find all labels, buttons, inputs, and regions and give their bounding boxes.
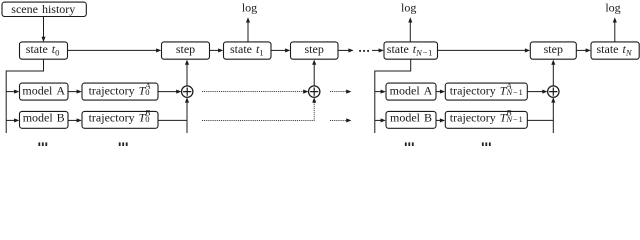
box state t1 xyxy=(224,42,272,59)
dotted wire row B to circle2 bottom xyxy=(202,101,314,120)
box model A right xyxy=(386,83,436,100)
ah into model B right xyxy=(381,118,386,122)
bottom continuation dots xyxy=(38,142,490,146)
ah dashed B xyxy=(346,118,351,122)
svg-text:state tN − 1: state tN − 1 xyxy=(387,42,433,58)
ah into step2 xyxy=(285,48,290,52)
wire trajectory B to circle1 bottom xyxy=(158,98,187,133)
ah into trajectory B left xyxy=(77,118,82,122)
box trajectory T0A xyxy=(82,83,158,100)
ah into model A left xyxy=(14,90,19,94)
wire model A to trajectory A left xyxy=(68,91,77,93)
wire model B to trajectory B left xyxy=(68,119,77,121)
svg-text:model B: model B xyxy=(390,111,432,125)
ah into step3 xyxy=(525,48,530,52)
box trajectory TN-1 B xyxy=(445,111,527,128)
wire trajectory B right to circle3 bottom xyxy=(528,98,554,133)
svg-text:log: log xyxy=(401,1,416,15)
text mid dots xyxy=(359,50,369,52)
wire branch to model B left xyxy=(6,119,14,121)
arrowheads xyxy=(14,17,617,122)
svg-text:model B: model B xyxy=(23,111,65,125)
wire model B to trajectory B right xyxy=(436,119,440,121)
dots under trajectories right xyxy=(482,142,484,146)
circle plus 2 xyxy=(309,86,320,97)
svg-text:state t0: state t0 xyxy=(26,42,60,58)
wire step2 to dots xyxy=(338,49,349,51)
wire trajectory A to circle1 xyxy=(158,91,177,93)
ah into model B left xyxy=(14,118,19,122)
ah circle3 into step3 bottom xyxy=(551,60,555,65)
svg-text:step: step xyxy=(305,42,324,56)
ah log2 up xyxy=(408,17,412,22)
wires solid xyxy=(6,17,615,133)
ah log3 up xyxy=(613,17,617,22)
ah into circle1 left xyxy=(176,90,181,94)
ah into state t0 top xyxy=(41,37,45,42)
ah into circle2 left xyxy=(303,90,308,94)
box scene history xyxy=(2,2,86,16)
svg-text:trajectory T0A: trajectory T0A xyxy=(89,81,152,98)
plus signs xyxy=(183,88,557,96)
wire trajectory A right to circle3 xyxy=(528,91,544,93)
dots under models left xyxy=(38,142,40,146)
wires dotted xyxy=(202,92,347,121)
box state tN-1 xyxy=(384,42,438,59)
wire step1 to state t1 xyxy=(210,49,219,51)
box model B right xyxy=(386,111,436,128)
ah into mid dots xyxy=(348,48,353,52)
svg-text:model A: model A xyxy=(390,83,433,97)
ah into circle2 bottom xyxy=(312,97,316,102)
wire dots to state tN-1 xyxy=(372,49,380,51)
wire state t1 to step2 xyxy=(271,49,286,51)
ah into trajectory A right xyxy=(440,90,445,94)
box state t0 xyxy=(20,42,68,59)
ah dashed A xyxy=(346,90,351,94)
circle plus 1 xyxy=(182,86,193,97)
svg-text:log: log xyxy=(242,1,257,15)
wire scene history to state t0 xyxy=(43,17,45,38)
ah into circle1 bottom xyxy=(185,97,189,102)
dotted wire row A to circle2 xyxy=(202,91,305,93)
wire step3 to state tN xyxy=(577,49,587,51)
ah into model A right xyxy=(381,90,386,94)
svg-text:model A: model A xyxy=(22,83,65,97)
box step 1 xyxy=(162,42,210,59)
box state tN xyxy=(591,42,639,59)
svg-text:trajectory T0B: trajectory T0B xyxy=(89,108,151,125)
ah into state tN xyxy=(586,48,591,52)
box model A left xyxy=(20,83,69,100)
wire model A to trajectory A right xyxy=(436,91,440,93)
wire log3 xyxy=(614,22,616,42)
wire state tN-1 down-left to models xyxy=(375,59,411,133)
svg-text:log: log xyxy=(605,1,620,15)
ah circle2 into step2 bottom xyxy=(312,60,316,65)
wire branch to model A right xyxy=(375,91,381,93)
ah into trajectory A left xyxy=(77,90,82,94)
wire log1 xyxy=(247,22,249,42)
ah into trajectory B right xyxy=(440,118,445,122)
svg-text:step: step xyxy=(176,42,195,56)
box model B left xyxy=(20,111,69,128)
svg-text:scene history: scene history xyxy=(11,2,75,16)
svg-text:state t1: state t1 xyxy=(230,42,264,58)
wire circle2 to step2 xyxy=(313,64,315,86)
svg-text:trajectory TN − 1B: trajectory TN − 1B xyxy=(450,108,523,125)
ah circle1 into step1 bottom xyxy=(185,60,189,65)
ah log1 up xyxy=(246,17,250,22)
circle plus 3 xyxy=(548,86,559,97)
wire log2 xyxy=(409,22,411,42)
box trajectory TN-1 A xyxy=(445,83,527,100)
box step 2 xyxy=(291,42,339,59)
ah into circle3 bottom xyxy=(551,97,555,102)
wire state t0 down-left to models xyxy=(6,59,43,133)
wire branch to model B right xyxy=(375,119,381,121)
ah into state t1 xyxy=(218,48,223,52)
dashed arrow B after circle2 xyxy=(330,119,347,121)
dashed arrow A after circle2 xyxy=(330,91,347,93)
ah into state tN-1 xyxy=(379,48,384,52)
box trajectory T0B xyxy=(82,111,158,128)
dots under trajectories left xyxy=(119,142,121,146)
ah into circle3 left xyxy=(542,90,547,94)
wire circle3 to step3 xyxy=(552,64,554,86)
dots under models right xyxy=(405,142,407,146)
wire branch to model A left xyxy=(6,91,14,93)
box step 3 xyxy=(530,42,576,59)
svg-text:state tN: state tN xyxy=(597,42,633,58)
wire state tN-1 to step3 xyxy=(438,49,526,51)
svg-text:step: step xyxy=(544,42,563,56)
ah into step1 xyxy=(156,48,161,52)
wire circle1 to step1 xyxy=(186,64,188,86)
wire state t0 to step1 xyxy=(68,49,158,51)
